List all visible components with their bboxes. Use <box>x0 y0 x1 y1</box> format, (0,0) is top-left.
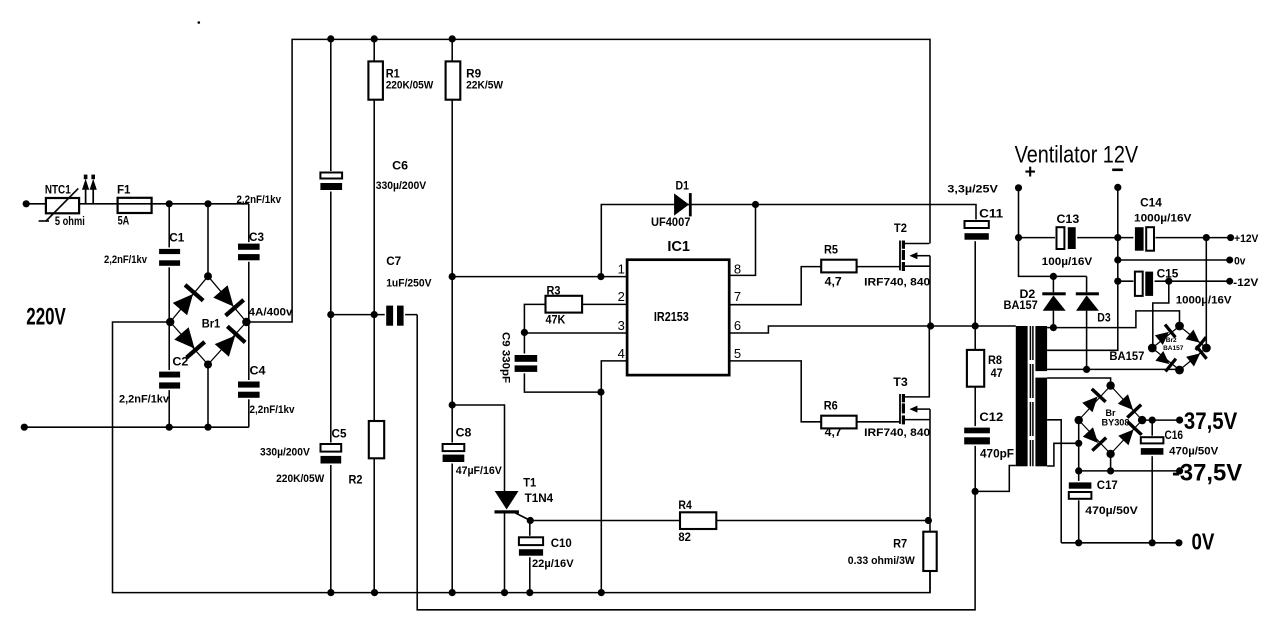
wire C10 vertical <box>529 521 531 593</box>
node junction D3 anode tap3 <box>1083 366 1090 373</box>
wire C9 bottom to COM node <box>524 372 601 392</box>
node junction C13 right minus vertical <box>1114 234 1121 241</box>
svg-text:82: 82 <box>678 530 691 544</box>
node junction D1 pin8 <box>752 201 759 208</box>
svg-text:T1: T1 <box>523 476 536 490</box>
transformer TR1 primary winding <box>1016 326 1028 466</box>
wire Br left corner down through -37,5V rail to C17 <box>1078 420 1080 482</box>
wire C11 R8 C12 vertical <box>974 240 976 492</box>
svg-text:470µ/50V: 470µ/50V <box>1085 505 1138 517</box>
wire -37,5V rail <box>1079 470 1180 472</box>
svg-text:2,2nF/1kv: 2,2nF/1kv <box>104 254 148 266</box>
svg-text:0.33 ohmi/3W: 0.33 ohmi/3W <box>848 555 916 567</box>
svg-text:220K/05W: 220K/05W <box>276 473 325 485</box>
capacitor C4 2,2nF/1kv <box>236 380 262 399</box>
capacitor C11 3,3u/25V electrolytic <box>963 220 991 242</box>
transformer secondary winding <box>1035 378 1047 467</box>
svg-text:R7: R7 <box>893 536 907 550</box>
node junction VCC pin1 line <box>449 273 456 280</box>
node junction +12V C14 Br2 <box>1203 234 1210 241</box>
node junction T1 gate R4 C10 <box>527 517 534 524</box>
wire main COM bus to R7 bottom <box>331 571 930 593</box>
svg-text:3: 3 <box>618 318 625 333</box>
wire secondary center tap A down to 0V rail <box>1047 420 1061 543</box>
svg-text:R4: R4 <box>678 498 692 512</box>
resistor R2 220K/05W <box>369 421 384 458</box>
transistor T3 IRF740 <box>899 394 901 424</box>
capacitor C12 470pF <box>962 426 992 446</box>
svg-text:T3: T3 <box>893 375 908 389</box>
wire pin 3 stub <box>524 332 627 334</box>
wire midpoint VS to transformer primary top <box>931 325 1016 327</box>
transistor T2 IRF740 <box>899 241 901 271</box>
svg-text:IR2153: IR2153 <box>654 310 689 324</box>
node junctions COM bus <box>327 589 334 596</box>
capacitor C1 2,2nF/1kv <box>157 247 182 267</box>
wire Br bottom corner down to -37,5V rail <box>1110 454 1112 471</box>
thyristor T1 T1N4 <box>495 491 519 510</box>
svg-text:C13: C13 <box>1057 212 1080 226</box>
node junction C2 bottom <box>166 424 173 431</box>
resistor R7 0.33 ohmi/3W <box>923 532 936 571</box>
svg-text:T2: T2 <box>894 221 907 235</box>
svg-text:C2: C2 <box>172 355 188 369</box>
wire C9 vertical <box>523 332 525 355</box>
node junction C13 left <box>1015 234 1022 241</box>
wire pin 8 stub and vertical to D1 cathode line <box>729 205 755 276</box>
node junction tapB Br left <box>1075 440 1082 447</box>
svg-text:T1N4: T1N4 <box>525 491 554 505</box>
wire R1/R2 vertical <box>373 39 375 592</box>
svg-text:22K/5W: 22K/5W <box>466 79 504 91</box>
wire C6/C5 vertical <box>330 39 332 592</box>
resistor R3 47K <box>546 296 583 313</box>
wire C15 node down to Br2 left corner staircase <box>1153 281 1169 348</box>
svg-text:22µ/16V: 22µ/16V <box>532 558 574 570</box>
svg-text:4,7: 4,7 <box>825 274 842 288</box>
svg-text:R6: R6 <box>824 399 838 413</box>
wire primary bottom tap to C12 node <box>975 466 1016 492</box>
svg-text:47K: 47K <box>546 312 566 326</box>
capacitor C8 47uF/16V electrolytic <box>441 443 467 464</box>
bridge rectifier Br1 <box>170 276 208 322</box>
svg-text:IC1: IC1 <box>667 239 690 255</box>
diode D1 UF4007 <box>674 193 689 215</box>
wire C1/C2 vertical with Br1 left corner <box>168 204 170 427</box>
svg-text:C4: C4 <box>250 363 266 377</box>
node terminal -37,5V <box>1176 467 1183 474</box>
wire D3 cathode vertical and anode vertical crossing taps <box>1086 276 1088 292</box>
svg-text:IRF740, 840: IRF740, 840 <box>864 427 930 439</box>
node junction T1 branch <box>449 401 456 408</box>
wire R7 bottom stub <box>929 571 931 593</box>
svg-text:Br: Br <box>1106 408 1116 418</box>
wire C15 line to -12V terminal <box>1118 280 1135 282</box>
svg-text:220K/05W: 220K/05W <box>386 79 434 91</box>
transformer fan winding <box>1035 326 1047 371</box>
wire C3/C4 vertical with Br1 right corner <box>248 204 250 427</box>
node junction pin4 COM <box>597 389 604 396</box>
svg-text:4: 4 <box>618 346 625 361</box>
node junction -37,5V C17 <box>1075 467 1082 474</box>
node junction R4 R7 T3 source <box>925 517 932 524</box>
svg-text:2,2nF/1kv: 2,2nF/1kv <box>237 194 282 206</box>
svg-text:2,2nF/1kv: 2,2nF/1kv <box>250 404 296 416</box>
wire T3 source and body down to R7/R4 node <box>905 419 930 421</box>
svg-text:C7: C7 <box>386 254 401 268</box>
svg-text:37,5V: 37,5V <box>1184 408 1238 435</box>
svg-text:7: 7 <box>734 289 741 304</box>
wire R5 to T2 gate <box>857 266 900 268</box>
wire Br right corner to 37,5V terminal <box>1142 419 1180 421</box>
node junction 0v line <box>1114 256 1121 263</box>
node top bus junctions <box>327 35 334 42</box>
svg-text:BA157: BA157 <box>1109 349 1144 363</box>
svg-text:2: 2 <box>618 289 625 304</box>
wire R3 left to pin 3 node <box>524 304 545 332</box>
resistor R4 82 <box>680 512 716 529</box>
wire C7 right down to lowest bus and up to primary bottom node <box>417 315 975 610</box>
diode D2 BA157 <box>1042 292 1065 295</box>
node junction midpoint VS <box>927 322 934 329</box>
svg-text:F1: F1 <box>117 182 131 196</box>
svg-text:Br2: Br2 <box>1166 337 1177 344</box>
capacitor C13 100u/16V electrolytic <box>1055 225 1077 251</box>
wire C13 line from plus terminal to minus vertical <box>1019 237 1057 239</box>
svg-text:5A: 5A <box>118 213 130 227</box>
svg-text:220V: 220V <box>26 304 66 331</box>
wire C16 vertical from 37,5V rail crossing -37,5V rail to 0V rail <box>1151 420 1153 437</box>
svg-text:100µ/16V: 100µ/16V <box>1042 256 1093 268</box>
wire R9/C8 vertical <box>451 39 453 592</box>
resistor R5 4,7 <box>821 260 856 273</box>
node junction C15 right Br2 feed <box>1165 278 1172 285</box>
svg-text:-37,5V: -37,5V <box>1172 460 1243 487</box>
svg-text:C5: C5 <box>332 427 347 441</box>
node junction C7 left <box>327 311 334 318</box>
node terminal -12V <box>1226 278 1233 285</box>
wire mains neutral bottom bus 220V <box>24 426 249 428</box>
svg-text:0V: 0V <box>1192 528 1215 554</box>
svg-text:+12V: +12V <box>1234 233 1259 245</box>
svg-text:C10: C10 <box>551 536 572 550</box>
node junction D2 cathode rail <box>1050 273 1057 280</box>
wire pin 2 stub <box>582 303 627 305</box>
svg-text:5: 5 <box>734 346 741 361</box>
wire Br1 left corner to minus HV rail via left vertical <box>113 322 331 593</box>
svg-text:C12: C12 <box>979 410 1003 424</box>
node junction C16 0V rail <box>1149 539 1156 546</box>
wire 4A/400v from Br1 right corner up to top HV bus <box>246 39 930 322</box>
svg-text:4,7: 4,7 <box>825 425 842 439</box>
svg-text:UF4007: UF4007 <box>651 215 691 229</box>
svg-text:5 ohmi: 5 ohmi <box>55 214 85 228</box>
node fan plus terminal <box>1015 184 1022 191</box>
wire Br1 bottom corner vertical <box>207 365 209 428</box>
capacitor C3 2,2nF/1kv <box>236 242 262 262</box>
svg-text:R2: R2 <box>349 472 363 486</box>
svg-text:C6: C6 <box>392 159 408 173</box>
svg-text:C14: C14 <box>1140 196 1162 210</box>
node fan minus terminal <box>1114 184 1121 191</box>
svg-text:C3: C3 <box>249 230 264 244</box>
diode D3 BA157 <box>1076 292 1099 295</box>
svg-text:C9 330pF: C9 330pF <box>500 332 512 383</box>
node junction pin1 D1 <box>597 273 604 280</box>
svg-text:330µ/200V: 330µ/200V <box>260 447 310 459</box>
wire +12V node down to Br2 right corner <box>1205 238 1207 348</box>
transformer core <box>1029 326 1031 466</box>
resistor R9 22K/5W <box>446 61 461 99</box>
wire fan winding tap1 to Br2 top corner with jog <box>1047 311 1179 328</box>
svg-text:1uF/250V: 1uF/250V <box>386 278 432 290</box>
inrush arrows <box>85 185 87 204</box>
wire 0V rail <box>1061 542 1179 544</box>
wire VCC line R9 to IC pin 1 <box>452 276 627 278</box>
svg-text:1000µ/16V: 1000µ/16V <box>1134 212 1192 224</box>
resistor R8 47 <box>967 350 984 387</box>
wire pin 7 stub and jog up to R5 <box>729 267 821 305</box>
wire secondary bottom tap B staircase to Br left node <box>1047 443 1079 466</box>
node junction C11 R8 <box>972 322 979 329</box>
IC U1 IR2153 <box>627 260 729 375</box>
svg-text:330µ/200V: 330µ/200V <box>376 180 427 192</box>
bridge rectifier Br BY308 <box>1079 386 1111 421</box>
wire pin 6 stub jog to half-bridge midpoint VS <box>729 326 930 333</box>
node junction Br1 bottom <box>204 424 211 431</box>
svg-text:470pF: 470pF <box>980 447 1014 461</box>
svg-text:BA157: BA157 <box>1163 345 1184 352</box>
svg-text:47: 47 <box>991 366 1003 380</box>
node terminal 0V <box>1175 539 1182 546</box>
svg-text:+: + <box>1025 162 1036 183</box>
svg-text:R8: R8 <box>988 353 1002 367</box>
wire fan winding tap3 to Br2 bottom corner <box>1047 368 1179 370</box>
wire secondary top tap to Br top corner <box>1047 378 1111 386</box>
wire T2 drain to top bus <box>905 243 930 245</box>
wire 0v output line <box>1118 259 1230 261</box>
capacitor C2 2,2nF/1kv <box>157 370 182 390</box>
svg-text:BA157: BA157 <box>1004 298 1039 312</box>
wire fan winding center tap2 to minus fan terminal vertical <box>1047 187 1118 350</box>
fuse F1 <box>118 198 152 213</box>
node junction D2 anode tap1 <box>1050 324 1057 331</box>
svg-text:BY308: BY308 <box>1102 418 1130 428</box>
svg-text:R3: R3 <box>547 283 561 297</box>
wire pin 5 stub and jog down to R6 <box>729 361 821 422</box>
capacitor C5 330u/200V electrolytic <box>319 443 344 466</box>
node junction 37,5V C16 <box>1149 417 1156 424</box>
wire SCR gate node to R4 to T3 source node <box>530 520 928 522</box>
wire pin 4 stub down to COM vertical <box>601 361 627 593</box>
capacitor C6 330u/200V electrolytic <box>318 171 344 192</box>
capacitor C10 22u/16V electrolytic <box>517 536 545 557</box>
capacitor C17 470u/50V electrolytic <box>1067 481 1094 500</box>
svg-text:2,2nF/1kv: 2,2nF/1kv <box>119 394 170 406</box>
capacitor C7 1uF/250V <box>385 304 405 328</box>
svg-text:C11: C11 <box>979 206 1003 220</box>
resistor R6 4,7 <box>821 416 856 429</box>
svg-text:IRF740, 840: IRF740, 840 <box>864 277 930 289</box>
wire C14 line to +12V terminal <box>1118 237 1135 239</box>
capacitor C16 470u/50V electrolytic <box>1139 436 1166 457</box>
node junction Br1 top <box>204 200 211 207</box>
node junction C1 <box>166 200 173 207</box>
svg-text:470µ/50V: 470µ/50V <box>1169 445 1219 457</box>
svg-text:Br1: Br1 <box>202 316 221 330</box>
svg-text:3,3µ/25V: 3,3µ/25V <box>947 184 998 196</box>
svg-text:-12V: -12V <box>1233 277 1259 289</box>
wire C17 bottom to 0V rail <box>1078 499 1080 543</box>
node junction Br bottom -37,5V rail <box>1107 467 1114 474</box>
wire D1 bootstrap line VCC to C11 <box>601 205 976 277</box>
wire Br1 top corner vertical <box>207 204 209 276</box>
svg-text:6: 6 <box>734 318 741 333</box>
svg-text:D1: D1 <box>676 179 690 193</box>
svg-text:1: 1 <box>618 262 625 277</box>
node junction C12 primary bottom <box>972 488 979 495</box>
svg-text:NTC1: NTC1 <box>45 182 71 196</box>
wire T1 anode branch from VCC vertical <box>452 405 504 491</box>
node terminal +12V <box>1227 234 1234 241</box>
node junction pin3 R3 C9 <box>521 329 528 336</box>
wire R6 to T3 gate <box>857 421 900 423</box>
svg-text:47µF/16V: 47µF/16V <box>456 465 503 477</box>
node junction C17 0V rail <box>1075 539 1082 546</box>
capacitor C9 330pF <box>513 354 540 374</box>
wire T3 drain up to midpoint <box>905 326 930 397</box>
resistor R1 220K/05W <box>368 61 383 99</box>
scan speck <box>198 21 201 24</box>
wire fan plus rail to D2 D3 cathodes <box>1019 188 1087 277</box>
wire mains top from input terminal through NTC1 and F1 to C3 node <box>26 203 249 205</box>
node terminal N <box>21 424 28 431</box>
bridge rectifier Br2 BA157 <box>1152 326 1179 348</box>
node input terminal L <box>23 200 30 207</box>
svg-text:C8: C8 <box>456 425 472 439</box>
svg-text:C1: C1 <box>169 230 184 244</box>
svg-text:D3: D3 <box>1097 310 1111 324</box>
label minus fan terminal <box>1112 169 1123 172</box>
capacitor C14 1000u/16V electrolytic <box>1133 225 1155 253</box>
node terminal 37,5V <box>1176 417 1183 424</box>
node junction C15 left <box>1114 278 1121 285</box>
svg-text:C17: C17 <box>1097 478 1118 492</box>
thermistor NTC1 <box>46 198 79 213</box>
wire D2 cathode vertical and anode vertical <box>1052 276 1054 292</box>
svg-text:8: 8 <box>734 262 741 277</box>
wire T1 gate diagonal <box>515 513 531 521</box>
node terminal 0v <box>1226 257 1233 264</box>
svg-text:R5: R5 <box>824 243 838 257</box>
svg-text:1000µ/16V: 1000µ/16V <box>1176 294 1232 306</box>
wire T1 cathode down to COM bus <box>504 513 506 592</box>
svg-text:4A/400v: 4A/400v <box>249 307 294 319</box>
wire T2 source and body down to midpoint <box>905 265 930 267</box>
wire C7 horizontal branch <box>331 314 417 316</box>
svg-text:C16: C16 <box>1165 428 1184 442</box>
svg-text:0v: 0v <box>1234 255 1246 267</box>
capacitor C15 1000u/16V electrolytic <box>1133 270 1154 298</box>
